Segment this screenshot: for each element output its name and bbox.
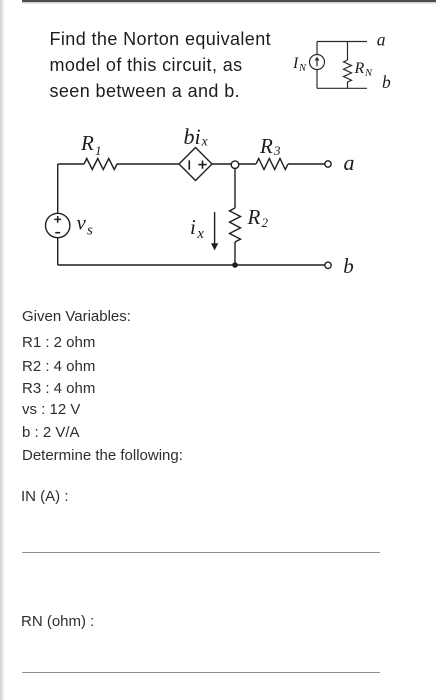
svg-text:s: s xyxy=(87,223,93,239)
svg-text:N: N xyxy=(364,68,373,79)
voltage source vs xyxy=(46,213,70,237)
wire icon top rail xyxy=(317,41,367,43)
svg-text:b: b xyxy=(382,72,391,92)
terminal b circle xyxy=(325,262,331,268)
dependent source bix (diamond) xyxy=(179,148,212,181)
wire icon resistor bottom stub xyxy=(347,82,349,88)
resistor R2 xyxy=(230,208,241,242)
svg-text:I: I xyxy=(292,55,299,72)
answer field IN xyxy=(21,489,69,504)
label bix xyxy=(184,124,209,150)
node junction circle (open) xyxy=(231,161,239,169)
svg-text:R: R xyxy=(354,60,365,77)
wire icon left branch top xyxy=(316,42,318,55)
label R1 xyxy=(80,131,102,158)
svg-text:R: R xyxy=(259,134,273,158)
junction dot bottom xyxy=(232,262,238,268)
ix arrow xyxy=(211,212,218,251)
wire top rail left xyxy=(58,163,84,165)
svg-text:a: a xyxy=(344,150,355,175)
Norton model icon SVG xyxy=(285,28,400,100)
svg-text:i: i xyxy=(190,215,196,239)
svg-text:v: v xyxy=(77,211,87,235)
resistor R1 xyxy=(84,159,117,170)
label IN xyxy=(292,55,307,74)
wire node to R2 xyxy=(234,167,236,208)
wire dependent source to node xyxy=(212,163,256,165)
given variables text xyxy=(22,309,131,324)
wire R1 to dependent source xyxy=(117,163,179,165)
svg-text:R: R xyxy=(80,131,94,155)
svg-text:3: 3 xyxy=(273,143,281,158)
main circuit SVG xyxy=(40,120,365,285)
svg-text:x: x xyxy=(196,226,204,242)
current source IN xyxy=(310,55,325,70)
svg-text:bi: bi xyxy=(184,124,201,149)
svg-text:R: R xyxy=(247,205,261,229)
wire left branch top xyxy=(57,164,59,213)
top divider bar xyxy=(22,0,436,2)
label R2 xyxy=(247,205,269,230)
label vs xyxy=(77,211,94,239)
answer field RN xyxy=(21,614,94,629)
wire icon left branch bottom xyxy=(316,70,318,89)
svg-text:2: 2 xyxy=(262,215,269,230)
header question text xyxy=(50,26,272,105)
wire bottom rail xyxy=(58,264,325,266)
svg-text:b: b xyxy=(343,254,354,278)
wire R3 to terminal a xyxy=(288,163,325,165)
svg-text:1: 1 xyxy=(95,143,102,158)
resistor RN xyxy=(344,60,352,82)
wire left branch bottom xyxy=(57,238,59,265)
svg-text:N: N xyxy=(298,63,307,74)
label RN xyxy=(354,60,374,79)
label ix xyxy=(190,215,204,242)
wire icon resistor top stub xyxy=(347,42,349,61)
wire R2 to bottom rail xyxy=(234,242,236,265)
terminal a circle xyxy=(325,161,331,167)
resistor R3 xyxy=(256,159,288,170)
label R3 xyxy=(259,134,281,158)
left edge shading xyxy=(0,0,5,700)
wire icon bottom rail xyxy=(317,87,367,89)
svg-text:x: x xyxy=(201,135,209,150)
svg-text:a: a xyxy=(377,29,386,49)
